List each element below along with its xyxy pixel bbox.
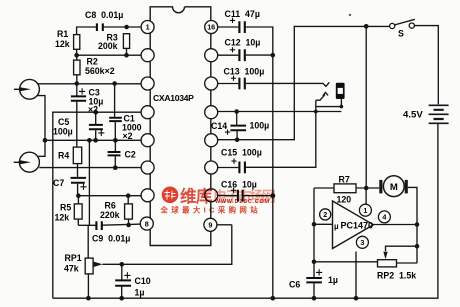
svg-text:12k: 12k xyxy=(55,213,70,223)
svg-text:C11 47µ: C11 47µ xyxy=(225,9,260,19)
svg-text:C14: C14 xyxy=(211,121,227,131)
svg-text:C8 0.01µ: C8 0.01µ xyxy=(85,10,123,20)
svg-text:4.5V: 4.5V xyxy=(403,110,423,121)
svg-text:C5: C5 xyxy=(58,117,69,127)
svg-text:×2: ×2 xyxy=(88,105,98,115)
svg-text:C7: C7 xyxy=(53,178,64,188)
svg-text:560k×2: 560k×2 xyxy=(85,66,115,76)
svg-text:1: 1 xyxy=(363,206,367,215)
svg-text:2: 2 xyxy=(323,210,327,219)
svg-text:全球最大IC采购网站: 全球最大IC采购网站 xyxy=(160,206,262,215)
svg-text:RP2 1.5k: RP2 1.5k xyxy=(377,271,416,281)
svg-text:120: 120 xyxy=(337,195,352,205)
svg-text:R6: R6 xyxy=(105,201,116,211)
svg-text:47k: 47k xyxy=(64,264,79,274)
svg-text:C15 100µ: C15 100µ xyxy=(221,148,262,158)
svg-text:1µ: 1µ xyxy=(135,288,145,298)
svg-text:R2: R2 xyxy=(87,57,98,67)
svg-text:PC1470: PC1470 xyxy=(341,221,374,231)
svg-text:4: 4 xyxy=(382,213,386,222)
svg-text:100µ: 100µ xyxy=(250,121,270,131)
svg-text:C6: C6 xyxy=(289,280,300,290)
svg-text:CXA1034P: CXA1034P xyxy=(153,93,194,103)
svg-text:C2: C2 xyxy=(125,150,136,160)
svg-text:3: 3 xyxy=(360,238,364,247)
svg-text:200k: 200k xyxy=(98,41,118,51)
svg-text:16: 16 xyxy=(207,23,215,32)
svg-text:1µ: 1µ xyxy=(328,275,338,285)
svg-text:12k: 12k xyxy=(55,39,70,49)
svg-text:×2: ×2 xyxy=(123,131,133,141)
svg-text:C13 100µ: C13 100µ xyxy=(224,67,265,77)
svg-text:RP1: RP1 xyxy=(65,253,82,263)
svg-text:C10: C10 xyxy=(135,276,151,286)
svg-text:1: 1 xyxy=(146,23,150,32)
svg-text:R5: R5 xyxy=(60,203,71,213)
svg-text:220k: 220k xyxy=(100,210,120,220)
svg-text:C12 10µ: C12 10µ xyxy=(225,38,261,48)
svg-text:WWW.DZSC.COM: WWW.DZSC.COM xyxy=(215,199,270,205)
svg-text:R4: R4 xyxy=(58,151,69,161)
svg-text:R7: R7 xyxy=(339,175,350,185)
svg-text:S: S xyxy=(398,29,404,39)
svg-text:µ: µ xyxy=(334,222,339,231)
svg-text:9: 9 xyxy=(208,221,212,230)
svg-text:维库: 维库 xyxy=(180,186,213,206)
svg-text:R1: R1 xyxy=(57,29,68,39)
svg-text:100µ: 100µ xyxy=(53,127,73,137)
svg-text:M: M xyxy=(390,182,398,193)
svg-text:C9 0.01µ: C9 0.01µ xyxy=(92,234,130,244)
svg-text:8: 8 xyxy=(145,219,149,228)
